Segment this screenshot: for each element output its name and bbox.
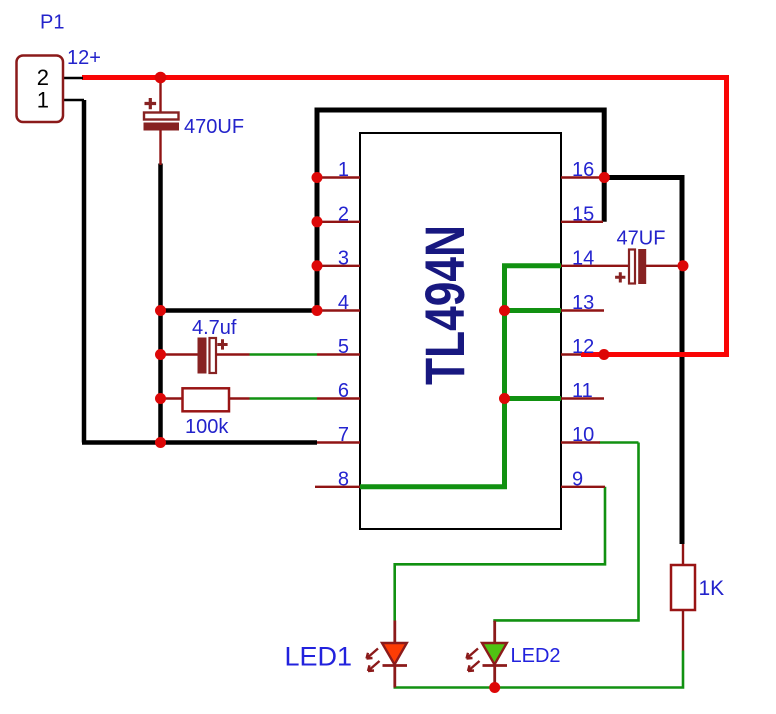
svg-text:1K: 1K: [699, 577, 725, 600]
junction dot 47UF right: [678, 260, 689, 271]
LED1 light arrow lower: [368, 661, 380, 671]
capacitor C 47UF hollow plate: [629, 250, 635, 284]
svg-text:TL494N: TL494N: [413, 225, 476, 385]
pin number 1: [338, 159, 349, 181]
wire green thick vertical feedback: [502, 266, 507, 487]
label 4.7uf: [192, 317, 237, 339]
LED2 lead top: [493, 621, 496, 644]
capacitor C 47UF lead right: [646, 265, 683, 267]
svg-text:5: 5: [338, 336, 349, 358]
capacitor C 470UF lead top: [159, 80, 161, 113]
connector P1 pin number 2: [37, 65, 49, 90]
pin stub 6: [317, 397, 360, 399]
LED1 lead bottom: [393, 666, 396, 688]
connector P1 pin number 1: [37, 88, 49, 113]
svg-text:12+: 12+: [67, 47, 101, 69]
pin number 16: [572, 159, 594, 181]
pin stub 10: [561, 441, 600, 443]
wire GND top horizontal black: [315, 108, 605, 113]
svg-text:16: 16: [572, 159, 594, 181]
pin number 6: [338, 380, 349, 402]
resistor R 100k body: [183, 388, 230, 411]
wire green thick pin14 branch: [502, 263, 561, 268]
wire green thick pin8 branch: [360, 484, 507, 489]
capacitor C 47UF plus sign: [615, 272, 625, 282]
label 470UF: [184, 116, 244, 138]
svg-text:6: 6: [338, 380, 349, 402]
wire green pin10 to LED2: [495, 443, 639, 623]
wire green pin6 segment: [250, 397, 318, 400]
pin number 5: [338, 336, 349, 358]
junction dot column pin4 row: [155, 305, 166, 316]
pin number 15: [572, 203, 594, 225]
capacitor C 470UF top plate: [144, 113, 179, 120]
pin stub 16: [561, 176, 604, 178]
svg-text:13: 13: [572, 292, 594, 314]
pin stub P1-1: [63, 99, 84, 102]
pin stub 12: [561, 353, 603, 355]
label 12+ net name: [67, 47, 101, 69]
pin number 14: [572, 247, 594, 269]
LED2 light arrow upper: [467, 649, 479, 659]
pin number 4: [338, 292, 349, 314]
svg-text:470UF: 470UF: [184, 116, 244, 138]
pin stub 4: [317, 309, 360, 311]
wire GND P1 pin1 vertical black: [82, 100, 87, 443]
wire GND bottom horizontal to pin 7: [82, 440, 317, 445]
svg-text:2: 2: [37, 65, 49, 90]
wire GND right vertical black to pin15: [602, 108, 607, 222]
junction dot column bottom row: [155, 437, 166, 448]
svg-text:7: 7: [338, 424, 349, 446]
capacitor C 470UF lead bottom: [159, 130, 161, 165]
pin stub 7: [317, 441, 360, 443]
svg-text:3: 3: [338, 247, 349, 269]
IC U1 TL494N body: [360, 133, 561, 529]
pin stub 8: [315, 486, 360, 488]
junction dot column 100k row: [155, 393, 166, 404]
svg-text:1: 1: [37, 88, 49, 113]
pin stub 2: [317, 221, 360, 223]
svg-text:LED1: LED1: [285, 642, 353, 672]
pin number 10: [572, 424, 594, 446]
svg-text:100k: 100k: [185, 416, 229, 438]
resistor R 100k lead left: [161, 397, 183, 399]
junction dot 470UF top on red wire: [155, 72, 167, 84]
pin stub 14: [561, 265, 629, 267]
connector P1: [17, 56, 64, 123]
LED1 lead top: [393, 621, 396, 645]
pin number 8: [338, 468, 349, 490]
pin number 13: [572, 292, 594, 314]
wire green pin5 segment: [250, 353, 318, 356]
wire green pin10 segment: [600, 441, 639, 444]
wire GND left vertical black to pin rows: [315, 108, 320, 311]
svg-text:15: 15: [572, 203, 594, 225]
pin number 12: [572, 336, 594, 358]
junction dot green pin11: [499, 393, 510, 404]
pin stub 5: [317, 353, 360, 355]
capacitor C 47UF solid plate: [639, 250, 646, 284]
pin number 11: [572, 380, 593, 402]
junction dot pin16: [599, 172, 610, 183]
label P1: [40, 12, 64, 34]
svg-text:2: 2: [338, 203, 349, 225]
wire GND pin4 row horizontal black: [161, 308, 318, 313]
pin number 9: [572, 468, 583, 490]
label 100k: [185, 416, 229, 438]
capacitor C 4.7uf lead left: [161, 353, 199, 355]
svg-text:LED2: LED2: [511, 645, 561, 667]
svg-text:4: 4: [338, 292, 349, 314]
resistor R 1K lead top: [682, 544, 684, 565]
svg-text:4.7uf: 4.7uf: [192, 317, 237, 339]
wire green pin9 to LED1: [395, 487, 605, 621]
label 47UF: [617, 228, 666, 250]
svg-text:P1: P1: [40, 12, 64, 34]
pin stub 3: [317, 265, 360, 267]
svg-text:9: 9: [572, 468, 583, 490]
capacitor C 470UF bottom plate: [144, 123, 179, 130]
pin stub 15: [561, 221, 603, 223]
junction dot pin12: [599, 349, 610, 360]
LED1 light arrow upper: [367, 649, 379, 659]
wire green LED bottom rail: [395, 651, 683, 688]
LED2 lead bottom: [493, 666, 496, 688]
junction dot pin1: [312, 172, 323, 183]
pin stub P1-2: [63, 77, 83, 80]
LED2 cathode bar: [483, 664, 508, 667]
wire 12V red right vertical: [724, 75, 729, 354]
resistor R 100k lead right: [229, 397, 250, 399]
junction dot green pin13: [499, 305, 510, 316]
svg-text:14: 14: [572, 247, 594, 269]
capacitor C 4.7uf lead right: [216, 353, 250, 355]
label LED1: [285, 642, 353, 672]
wire red pin12 horizontal: [581, 352, 729, 357]
resistor R 1K body: [671, 565, 695, 610]
label LED2: [511, 645, 561, 667]
svg-text:1: 1: [338, 159, 349, 181]
label TL494N: [413, 225, 476, 385]
resistor R 1K lead bottom: [682, 610, 684, 651]
pin stub 13: [561, 309, 604, 311]
junction dot pin2: [312, 216, 323, 227]
pin stub 9: [561, 486, 605, 488]
svg-text:11: 11: [572, 380, 593, 402]
junction dot pin3: [312, 260, 323, 271]
capacitor C 4.7uf solid plate: [198, 338, 206, 373]
pin stub 11: [561, 397, 604, 399]
svg-text:10: 10: [572, 424, 594, 446]
LED1 body triangle: [382, 643, 407, 665]
svg-text:47UF: 47UF: [617, 228, 666, 250]
junction dot pin4: [312, 305, 323, 316]
wire GND 470UF column vertical black: [158, 164, 163, 443]
junction dot LED2 bottom: [489, 682, 500, 693]
capacitor C 470UF plus sign: [145, 98, 157, 109]
wire black right column vertical: [680, 175, 685, 544]
junction dot column 4.7uf row: [155, 349, 166, 360]
wire green thick pin13 branch: [505, 308, 562, 313]
pin number 2: [338, 203, 349, 225]
wire black pin16 to right column: [604, 175, 682, 180]
pin number 3: [338, 247, 349, 269]
LED1 cathode bar: [383, 664, 408, 667]
pin number 7: [338, 424, 349, 446]
svg-text:8: 8: [338, 468, 349, 490]
pin stub 1: [317, 176, 360, 178]
svg-text:12: 12: [572, 336, 594, 358]
label 1K: [699, 577, 725, 600]
wire 12V red top horizontal: [82, 75, 729, 80]
capacitor C 4.7uf hollow plate: [210, 338, 217, 373]
capacitor C 4.7uf plus sign: [217, 339, 227, 349]
wire green thick pin11 branch: [505, 396, 562, 401]
LED2 light arrow lower: [468, 661, 480, 671]
LED2 body triangle: [482, 643, 507, 665]
